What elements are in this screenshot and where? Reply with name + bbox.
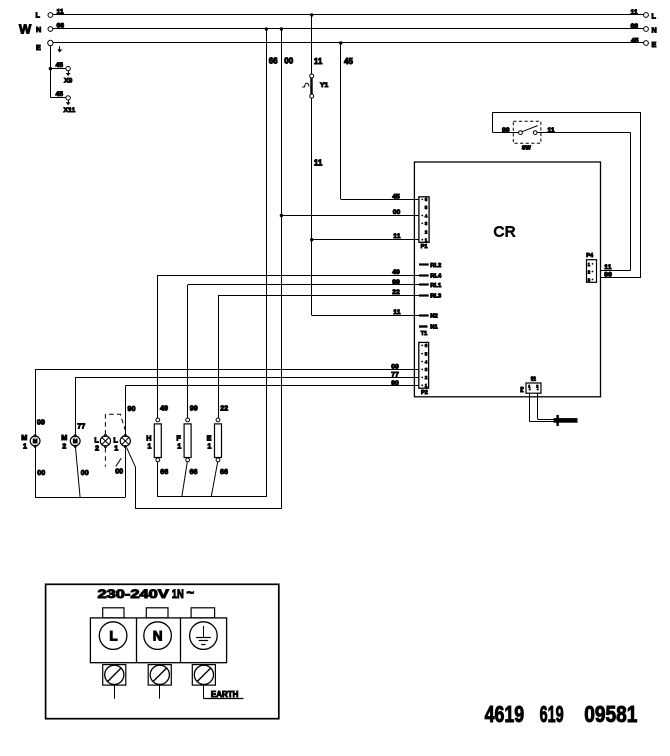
svg-text:2: 2 bbox=[95, 444, 99, 453]
wire N bus bbox=[53, 23, 644, 30]
connector P3 bbox=[520, 376, 541, 394]
svg-text:09581: 09581 bbox=[584, 701, 637, 727]
wire E1 bottom 66 diagonal bbox=[211, 462, 228, 497]
svg-text:3: 3 bbox=[425, 367, 428, 372]
lamp L2 bbox=[94, 434, 110, 452]
svg-text:P4: P4 bbox=[586, 253, 594, 259]
wire to X11 bbox=[50, 91, 65, 98]
svg-text:11: 11 bbox=[393, 309, 400, 316]
svg-text:N: N bbox=[652, 26, 657, 35]
svg-text:1: 1 bbox=[528, 385, 530, 389]
wire 09 to P2 pin3 bbox=[35, 363, 419, 370]
wire 11 to P1 pin1 bbox=[310, 233, 419, 242]
pin RL3 bbox=[419, 293, 442, 299]
wire M1 bottom 00 bbox=[36, 446, 46, 497]
svg-text:45: 45 bbox=[344, 57, 353, 66]
wire 77 to P2 pin2 bbox=[75, 371, 419, 378]
wire SW loop down to P4 bbox=[640, 112, 642, 278]
svg-text:66: 66 bbox=[269, 57, 278, 66]
node E-45 junction bbox=[339, 41, 342, 44]
motor M1 bbox=[21, 433, 40, 451]
wire H1 top 49 bbox=[158, 275, 169, 418]
svg-text:EARTH: EARTH bbox=[211, 690, 239, 699]
wire L bus bbox=[53, 9, 644, 16]
svg-text:1: 1 bbox=[147, 442, 151, 451]
svg-text:11: 11 bbox=[631, 9, 638, 16]
svg-text:2: 2 bbox=[588, 270, 591, 275]
wire 49 to RL4 bbox=[158, 269, 419, 276]
thermal cutout Y1 bbox=[302, 74, 328, 98]
wire 00 vertical bbox=[282, 29, 294, 509]
wire P3 pin2 down bbox=[537, 393, 539, 419]
pin RL2 bbox=[419, 263, 441, 269]
wire 22 to RL3 bbox=[218, 289, 419, 296]
heater H1 bbox=[146, 418, 161, 462]
wire H1 bottom 66 bbox=[158, 462, 169, 497]
svg-text:Y1: Y1 bbox=[320, 82, 329, 89]
svg-text:L: L bbox=[109, 629, 117, 644]
wire 45 to P1 pin6 bbox=[341, 194, 419, 201]
svg-text:SW: SW bbox=[522, 145, 532, 151]
svg-text:619: 619 bbox=[540, 701, 564, 727]
svg-text:1N: 1N bbox=[172, 587, 184, 601]
heater F1 bbox=[176, 418, 191, 462]
tab E bbox=[191, 608, 215, 618]
connector P4 bbox=[586, 253, 596, 282]
svg-text:00: 00 bbox=[284, 57, 293, 66]
wire M2 top 77 bbox=[76, 377, 86, 436]
pin RL4 bbox=[419, 273, 442, 279]
svg-text:45: 45 bbox=[392, 194, 400, 201]
svg-text:00: 00 bbox=[81, 468, 89, 477]
svg-text:49: 49 bbox=[392, 269, 400, 276]
lamp L2 dashed top bbox=[105, 414, 125, 434]
terminal earth circle bbox=[190, 622, 218, 650]
wire E drop bbox=[50, 46, 52, 98]
wire 90 to P2 pin1 bbox=[125, 380, 419, 387]
svg-text:99: 99 bbox=[392, 279, 400, 286]
node N-00 junction bbox=[280, 27, 283, 30]
svg-text:1: 1 bbox=[114, 444, 118, 453]
svg-text:RL2: RL2 bbox=[430, 263, 441, 269]
svg-text:11: 11 bbox=[314, 159, 323, 168]
svg-text:5: 5 bbox=[425, 351, 428, 356]
temperature probe bbox=[554, 415, 578, 426]
terminal N right bbox=[631, 23, 657, 34]
svg-text:3: 3 bbox=[425, 221, 428, 226]
svg-text:3: 3 bbox=[588, 278, 591, 283]
wire E bus bbox=[53, 42, 644, 44]
heater E1 bbox=[207, 418, 222, 462]
screw terminal E bbox=[192, 665, 215, 686]
svg-text:11: 11 bbox=[314, 57, 323, 66]
svg-text:2: 2 bbox=[425, 375, 428, 380]
svg-text:4: 4 bbox=[425, 213, 428, 218]
svg-text:2: 2 bbox=[425, 230, 428, 235]
svg-text:11: 11 bbox=[393, 233, 400, 240]
wire P4 99 bbox=[601, 272, 641, 279]
wire 45 vertical bbox=[341, 43, 354, 199]
svg-text:4619: 4619 bbox=[485, 701, 524, 727]
wire L stub bbox=[114, 685, 116, 699]
terminal L right bbox=[631, 9, 657, 21]
switch SW bbox=[513, 121, 541, 151]
svg-text:RL3: RL3 bbox=[430, 293, 442, 299]
tab N bbox=[146, 608, 168, 618]
svg-text:09: 09 bbox=[37, 418, 45, 427]
svg-text:2: 2 bbox=[536, 385, 538, 389]
wire SW right 11 bbox=[537, 127, 631, 134]
wire L2 dashed diagonal bbox=[116, 458, 122, 466]
svg-text:00: 00 bbox=[37, 468, 45, 477]
svg-text:P3: P3 bbox=[520, 386, 525, 392]
svg-text:99: 99 bbox=[502, 127, 510, 134]
svg-text:1: 1 bbox=[207, 442, 211, 451]
connector P1 bbox=[419, 197, 429, 250]
pin N2 bbox=[419, 314, 438, 320]
wire bus 00 bottom bbox=[135, 508, 281, 510]
pin RL1 bbox=[419, 283, 442, 289]
svg-text:00: 00 bbox=[115, 467, 123, 476]
svg-text:N: N bbox=[153, 629, 163, 644]
part number bbox=[485, 701, 638, 727]
ground symbol at E bbox=[57, 46, 62, 52]
svg-text:45: 45 bbox=[631, 37, 639, 44]
terminal L left bbox=[36, 11, 53, 20]
svg-text:2: 2 bbox=[62, 442, 66, 451]
svg-text:M: M bbox=[33, 439, 38, 445]
svg-text:45: 45 bbox=[56, 62, 64, 69]
wire 11 down to P4 bbox=[630, 133, 632, 271]
terminal N left bbox=[36, 25, 53, 34]
svg-text:66: 66 bbox=[631, 23, 639, 30]
wire M1 top 09 bbox=[36, 369, 45, 436]
svg-text:11: 11 bbox=[548, 127, 555, 134]
svg-text:22: 22 bbox=[220, 403, 228, 412]
label 230-240V 1N bbox=[98, 585, 195, 601]
wire SW left 99 bbox=[493, 127, 519, 134]
terminal E left bbox=[36, 40, 53, 52]
wire probe lower bbox=[530, 421, 554, 423]
svg-text:E: E bbox=[652, 40, 657, 49]
svg-text:99: 99 bbox=[604, 272, 612, 279]
wire P3 pin1 down bbox=[529, 393, 531, 421]
wire bus M-00 bbox=[35, 497, 125, 499]
svg-text:66: 66 bbox=[57, 23, 65, 30]
wire L1 bottom bbox=[125, 446, 127, 497]
node L-11 junction bbox=[310, 13, 313, 16]
svg-text:66: 66 bbox=[220, 467, 228, 476]
svg-text:1: 1 bbox=[425, 383, 428, 388]
svg-text:~: ~ bbox=[187, 585, 195, 600]
svg-text:X11: X11 bbox=[64, 107, 76, 114]
svg-text:22: 22 bbox=[392, 289, 400, 296]
svg-text:M: M bbox=[73, 439, 78, 445]
terminal block outer box bbox=[46, 584, 279, 718]
wire 00 to P1 pin4 bbox=[280, 209, 419, 217]
wire probe upper bbox=[538, 419, 554, 421]
tab L bbox=[103, 608, 124, 618]
wire L1 top 90 bbox=[126, 386, 136, 436]
node N-66 junction bbox=[265, 27, 268, 30]
svg-text:77: 77 bbox=[77, 421, 85, 430]
wire 11 vertical upper bbox=[312, 15, 323, 74]
svg-text:77: 77 bbox=[391, 371, 399, 378]
svg-text:1: 1 bbox=[588, 262, 591, 267]
svg-text:T1: T1 bbox=[421, 331, 428, 337]
svg-text:99: 99 bbox=[190, 403, 198, 412]
wire F1 bottom 66 diagonal bbox=[182, 462, 198, 497]
svg-text:N: N bbox=[36, 25, 41, 34]
svg-text:1: 1 bbox=[177, 442, 181, 451]
svg-text:W: W bbox=[19, 22, 32, 37]
svg-text:1: 1 bbox=[23, 442, 27, 451]
terminal N circle bbox=[144, 622, 172, 650]
svg-text:RL1: RL1 bbox=[430, 283, 442, 289]
svg-text:RL4: RL4 bbox=[430, 273, 442, 279]
wire 11 vertical lower bbox=[312, 98, 323, 315]
terminal X11 bbox=[64, 96, 76, 114]
svg-text:CR: CR bbox=[494, 224, 516, 241]
svg-text:P2: P2 bbox=[421, 390, 428, 396]
wire earth stub bbox=[204, 685, 244, 699]
wire 99 to RL1 bbox=[188, 279, 419, 286]
svg-text:90: 90 bbox=[391, 380, 399, 387]
svg-text:11: 11 bbox=[604, 264, 611, 271]
node E drop junction bbox=[49, 67, 52, 70]
wire P4 11 bbox=[601, 264, 631, 271]
terminal E right bbox=[631, 37, 657, 48]
svg-text:6: 6 bbox=[425, 343, 428, 348]
terminal X9 bbox=[64, 66, 73, 84]
screw terminal L bbox=[103, 665, 126, 686]
wire F1 top 99 bbox=[188, 285, 198, 418]
svg-text:N1: N1 bbox=[430, 325, 438, 331]
terminal L circle bbox=[99, 622, 127, 650]
lamp L2 dashed bottom bbox=[104, 448, 106, 467]
svg-text:L: L bbox=[652, 12, 657, 21]
svg-text:230-240V: 230-240V bbox=[98, 587, 169, 601]
svg-text:N2: N2 bbox=[430, 314, 437, 320]
screw terminal N bbox=[148, 665, 171, 686]
svg-text:X9: X9 bbox=[64, 78, 73, 85]
wire SW loop top bbox=[493, 112, 641, 114]
svg-text:66: 66 bbox=[190, 467, 198, 476]
wire SW loop up bbox=[492, 112, 494, 133]
svg-text:90: 90 bbox=[128, 404, 136, 413]
svg-text:P1: P1 bbox=[421, 244, 428, 250]
lamp L1 bbox=[113, 434, 130, 452]
wire bus 66 bottom bbox=[158, 496, 267, 498]
svg-text:4: 4 bbox=[425, 359, 428, 364]
wire 11 to N2 bbox=[312, 309, 419, 316]
wire N stub bbox=[159, 685, 161, 699]
svg-text:E: E bbox=[36, 43, 41, 52]
motor M2 bbox=[61, 433, 80, 451]
wire to X9 bbox=[50, 62, 65, 69]
terminal block body bbox=[90, 618, 226, 663]
wire M2 bottom 00 bbox=[75, 446, 88, 497]
svg-text:66: 66 bbox=[160, 467, 168, 476]
controller CR box bbox=[414, 162, 600, 397]
svg-text:5: 5 bbox=[425, 205, 428, 210]
pin N1 bbox=[419, 325, 438, 331]
connector P2 bbox=[419, 342, 429, 395]
svg-text:09: 09 bbox=[391, 363, 399, 370]
svg-text:49: 49 bbox=[160, 403, 168, 412]
svg-text:L: L bbox=[36, 11, 41, 20]
wire E1 top 22 bbox=[219, 295, 229, 418]
wire 66 vertical bbox=[267, 29, 279, 497]
svg-text:45: 45 bbox=[56, 91, 64, 98]
svg-text:1: 1 bbox=[425, 238, 428, 243]
wire L1 diagonal 00 bbox=[115, 448, 135, 509]
svg-text:11: 11 bbox=[57, 9, 64, 16]
svg-text:6: 6 bbox=[425, 197, 428, 202]
svg-text:00: 00 bbox=[393, 209, 401, 216]
